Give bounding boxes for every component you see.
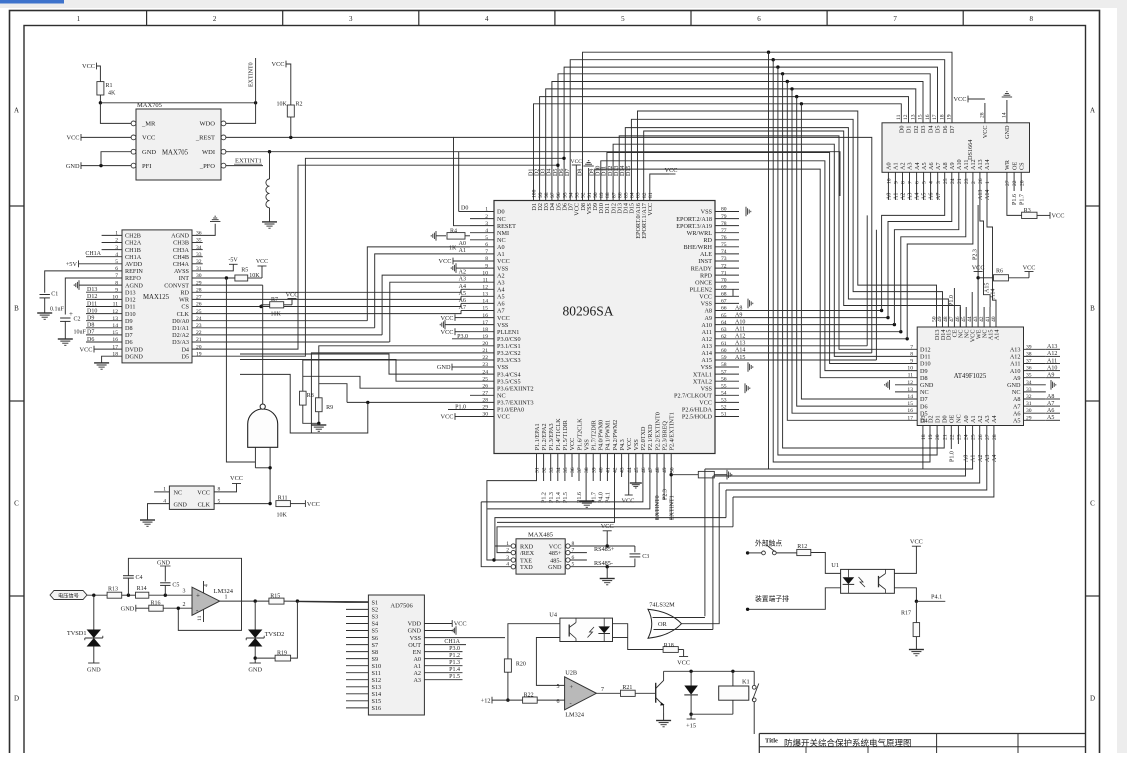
svg-text:VSS: VSS bbox=[583, 439, 590, 451]
svg-text:29: 29 bbox=[1026, 415, 1032, 421]
svg-text:VCC: VCC bbox=[954, 96, 967, 103]
svg-text:A6: A6 bbox=[928, 162, 935, 170]
svg-text:GND: GND bbox=[174, 502, 188, 509]
svg-text:53: 53 bbox=[721, 398, 727, 404]
svg-text:A2: A2 bbox=[978, 455, 984, 462]
svg-text:33: 33 bbox=[549, 467, 555, 473]
svg-text:P1.3: P1.3 bbox=[449, 660, 460, 666]
svg-text:14: 14 bbox=[907, 394, 913, 400]
svg-text:P1.2: P1.2 bbox=[542, 492, 548, 503]
svg-text:37: 37 bbox=[577, 467, 583, 473]
svg-text:60: 60 bbox=[721, 348, 727, 354]
svg-text:D9: D9 bbox=[125, 318, 133, 325]
svg-text:82: 82 bbox=[642, 192, 648, 198]
svg-text:VSS: VSS bbox=[701, 209, 713, 216]
svg-text:GND: GND bbox=[121, 605, 135, 612]
svg-text:17: 17 bbox=[482, 320, 488, 326]
svg-text:EXTINT0: EXTINT0 bbox=[249, 62, 255, 87]
svg-text:R8: R8 bbox=[307, 393, 314, 399]
svg-text:A12: A12 bbox=[970, 159, 977, 170]
svg-text:49: 49 bbox=[662, 467, 668, 473]
svg-text:S2: S2 bbox=[372, 607, 379, 614]
svg-text:88: 88 bbox=[605, 192, 611, 198]
svg-text:80: 80 bbox=[721, 207, 727, 213]
svg-text:VCC: VCC bbox=[441, 329, 454, 336]
svg-text:P2.0TXD: P2.0TXD bbox=[640, 426, 647, 450]
svg-text:58: 58 bbox=[721, 362, 727, 368]
svg-text:40: 40 bbox=[598, 467, 604, 473]
svg-text:36: 36 bbox=[570, 467, 576, 473]
svg-text:10K: 10K bbox=[277, 102, 288, 108]
svg-text:B: B bbox=[14, 305, 19, 313]
svg-text:XTAL1: XTAL1 bbox=[693, 371, 712, 378]
svg-text:VCC: VCC bbox=[601, 523, 614, 530]
svg-text:19: 19 bbox=[482, 334, 488, 340]
svg-text:D: D bbox=[14, 695, 19, 703]
svg-text:A4: A4 bbox=[915, 193, 921, 200]
svg-text:RS485-: RS485- bbox=[594, 560, 613, 567]
svg-text:GND: GND bbox=[87, 667, 101, 674]
svg-text:+: + bbox=[570, 684, 574, 691]
svg-text:27: 27 bbox=[985, 434, 991, 440]
svg-text:D8: D8 bbox=[920, 375, 928, 382]
svg-text:S6: S6 bbox=[372, 635, 379, 642]
svg-text:P2.1/RXD: P2.1/RXD bbox=[647, 424, 654, 450]
svg-text:10uF: 10uF bbox=[74, 330, 87, 336]
svg-text:7: 7 bbox=[910, 344, 913, 350]
svg-text:R16: R16 bbox=[151, 600, 161, 606]
svg-text:_REST: _REST bbox=[195, 135, 215, 142]
svg-text:20: 20 bbox=[1019, 180, 1025, 186]
svg-text:100: 100 bbox=[532, 189, 538, 198]
svg-text:C5: C5 bbox=[172, 583, 179, 589]
svg-text:42: 42 bbox=[613, 467, 619, 473]
svg-text:11: 11 bbox=[197, 615, 203, 621]
svg-text:A1: A1 bbox=[894, 193, 900, 200]
svg-text:C3: C3 bbox=[642, 554, 649, 560]
svg-text:D3/A3: D3/A3 bbox=[172, 339, 189, 346]
svg-text:D4: D4 bbox=[547, 169, 553, 176]
svg-text:+5V: +5V bbox=[66, 261, 78, 268]
svg-text:16: 16 bbox=[482, 313, 488, 319]
svg-text:6: 6 bbox=[557, 699, 560, 705]
svg-text:P1.7: P1.7 bbox=[1019, 194, 1025, 205]
svg-text:OE: OE bbox=[949, 415, 956, 423]
svg-text:P2.3: P2.3 bbox=[973, 249, 979, 260]
svg-text:74: 74 bbox=[721, 249, 727, 255]
svg-text:55: 55 bbox=[721, 383, 727, 389]
svg-text:VCC: VCC bbox=[307, 501, 320, 508]
svg-text:21: 21 bbox=[942, 434, 948, 440]
svg-text:7: 7 bbox=[908, 181, 914, 184]
svg-text:26: 26 bbox=[196, 302, 202, 308]
svg-text:5: 5 bbox=[621, 15, 625, 23]
svg-text:P1.1/EPA1: P1.1/EPA1 bbox=[534, 423, 541, 450]
svg-text:VSS: VSS bbox=[701, 385, 713, 392]
svg-text:D: D bbox=[1090, 695, 1095, 703]
svg-text:27: 27 bbox=[1005, 180, 1011, 186]
svg-text:A7: A7 bbox=[935, 162, 942, 170]
svg-text:25: 25 bbox=[482, 376, 488, 382]
svg-text:VCC: VCC bbox=[982, 126, 989, 139]
svg-text:REFO: REFO bbox=[125, 275, 141, 282]
svg-text:40: 40 bbox=[991, 316, 997, 322]
svg-text:D8: D8 bbox=[577, 169, 583, 176]
svg-text:VCC: VCC bbox=[1052, 213, 1065, 220]
svg-text:D6: D6 bbox=[942, 126, 949, 134]
svg-text:A9: A9 bbox=[949, 162, 956, 170]
svg-text:S3: S3 bbox=[372, 614, 379, 621]
svg-text:VCC: VCC bbox=[82, 63, 95, 70]
svg-text:VCC: VCC bbox=[1023, 264, 1036, 271]
svg-text:VSS: VSS bbox=[701, 364, 713, 371]
svg-text:A13: A13 bbox=[978, 190, 984, 200]
svg-text:CH2A: CH2A bbox=[125, 240, 142, 247]
svg-text:K1: K1 bbox=[742, 679, 750, 686]
svg-text:D0: D0 bbox=[497, 209, 505, 216]
svg-text:S14: S14 bbox=[372, 691, 382, 698]
svg-text:/REX: /REX bbox=[520, 550, 535, 557]
svg-text:30: 30 bbox=[482, 412, 488, 418]
svg-text:-5V: -5V bbox=[228, 258, 238, 264]
svg-text:A11: A11 bbox=[1010, 361, 1020, 368]
svg-text:21: 21 bbox=[482, 348, 488, 354]
svg-text:16: 16 bbox=[925, 114, 931, 120]
svg-text:5: 5 bbox=[557, 684, 560, 690]
svg-text:A6: A6 bbox=[497, 301, 505, 308]
svg-text:P1.0: P1.0 bbox=[949, 451, 955, 462]
svg-text:TVSD2: TVSD2 bbox=[265, 631, 285, 638]
svg-text:96: 96 bbox=[556, 192, 562, 198]
svg-text:71: 71 bbox=[721, 270, 727, 276]
svg-text:39: 39 bbox=[1026, 344, 1032, 350]
svg-text:S1: S1 bbox=[372, 600, 379, 607]
svg-text:EPORT.2/A18: EPORT.2/A18 bbox=[676, 216, 712, 223]
svg-text:NC: NC bbox=[1012, 389, 1021, 396]
svg-text:D3: D3 bbox=[920, 415, 927, 423]
svg-text:D5: D5 bbox=[935, 126, 942, 134]
svg-text:P4.0/PWM0: P4.0/PWM0 bbox=[598, 420, 605, 451]
svg-text:21: 21 bbox=[957, 178, 963, 184]
svg-text:A14: A14 bbox=[993, 330, 1000, 341]
svg-text:35: 35 bbox=[563, 467, 569, 473]
svg-text:15: 15 bbox=[918, 114, 924, 120]
svg-text:+15: +15 bbox=[686, 723, 696, 730]
svg-text:P3.1/CS1: P3.1/CS1 bbox=[497, 343, 521, 350]
svg-text:3: 3 bbox=[485, 221, 488, 227]
svg-text:24: 24 bbox=[482, 369, 488, 375]
svg-text:CH3B: CH3B bbox=[173, 240, 189, 247]
svg-text:61: 61 bbox=[721, 341, 727, 347]
svg-text:8: 8 bbox=[485, 256, 488, 262]
svg-text:VDD: VDD bbox=[408, 621, 422, 628]
svg-text:A9: A9 bbox=[1013, 375, 1021, 382]
svg-text:C1: C1 bbox=[51, 292, 58, 298]
svg-text:50: 50 bbox=[669, 467, 675, 473]
svg-text:78: 78 bbox=[721, 221, 727, 227]
svg-text:A0: A0 bbox=[887, 193, 893, 200]
svg-text:P2.7/CLKOUT: P2.7/CLKOUT bbox=[674, 393, 712, 400]
svg-text:S10: S10 bbox=[372, 663, 382, 670]
svg-text:18: 18 bbox=[482, 327, 488, 333]
svg-text:13: 13 bbox=[911, 114, 917, 120]
svg-text:A13: A13 bbox=[1010, 347, 1021, 354]
svg-text:装置端子排: 装置端子排 bbox=[755, 594, 789, 603]
svg-text:INST: INST bbox=[698, 258, 712, 265]
svg-text:98: 98 bbox=[544, 192, 550, 198]
svg-text:VCC: VCC bbox=[622, 498, 635, 505]
svg-text:11: 11 bbox=[908, 373, 914, 379]
svg-text:A2: A2 bbox=[977, 415, 984, 423]
svg-text:D4: D4 bbox=[928, 126, 935, 134]
svg-text:A11: A11 bbox=[702, 329, 712, 336]
svg-text:RPD: RPD bbox=[700, 272, 713, 279]
svg-text:73: 73 bbox=[721, 256, 727, 262]
svg-text:P3.6/EXIINT2: P3.6/EXIINT2 bbox=[497, 385, 534, 392]
svg-text:A0: A0 bbox=[886, 162, 893, 170]
svg-text:AGND: AGND bbox=[125, 282, 143, 289]
svg-text:VSS: VSS bbox=[701, 301, 713, 308]
svg-text:14: 14 bbox=[482, 299, 488, 305]
svg-text:34: 34 bbox=[556, 467, 562, 473]
svg-text:13: 13 bbox=[482, 292, 488, 298]
svg-text:86: 86 bbox=[617, 192, 623, 198]
svg-text:64: 64 bbox=[721, 320, 727, 326]
svg-text:47: 47 bbox=[648, 467, 654, 473]
svg-text:28: 28 bbox=[482, 398, 488, 404]
svg-text:A7: A7 bbox=[497, 308, 505, 315]
svg-text:CLK: CLK bbox=[177, 311, 190, 318]
svg-text:A: A bbox=[14, 107, 19, 115]
svg-text:14: 14 bbox=[1002, 112, 1008, 118]
svg-text:46: 46 bbox=[641, 467, 647, 473]
svg-text:63: 63 bbox=[721, 327, 727, 333]
svg-text:31: 31 bbox=[535, 467, 541, 473]
svg-text:A2: A2 bbox=[900, 162, 907, 170]
svg-text:R2: R2 bbox=[296, 102, 303, 108]
svg-text:U4: U4 bbox=[549, 612, 558, 619]
svg-text:P1.6/T2CLK: P1.6/T2CLK bbox=[576, 418, 583, 451]
svg-text:P1.5: P1.5 bbox=[563, 492, 569, 503]
svg-text:95: 95 bbox=[562, 192, 568, 198]
svg-text:GND: GND bbox=[1007, 382, 1021, 389]
svg-text:P1.5: P1.5 bbox=[449, 674, 460, 680]
svg-text:A14: A14 bbox=[984, 159, 991, 170]
svg-text:D7: D7 bbox=[920, 396, 928, 403]
svg-text:A4: A4 bbox=[992, 455, 998, 462]
svg-text:R21: R21 bbox=[622, 685, 632, 691]
svg-text:10K: 10K bbox=[277, 513, 288, 519]
svg-text:9: 9 bbox=[910, 359, 913, 365]
svg-text:P1.6: P1.6 bbox=[1012, 194, 1018, 205]
svg-text:8: 8 bbox=[901, 181, 907, 184]
svg-text:4: 4 bbox=[929, 181, 935, 184]
svg-text:A0: A0 bbox=[963, 415, 970, 423]
svg-text:P1.0/EPA0: P1.0/EPA0 bbox=[497, 407, 524, 414]
svg-text:2: 2 bbox=[485, 214, 488, 220]
svg-text:A1: A1 bbox=[497, 251, 505, 258]
svg-text:DS1664: DS1664 bbox=[967, 140, 974, 160]
svg-text:28: 28 bbox=[980, 112, 986, 118]
svg-text:D2: D2 bbox=[534, 169, 540, 176]
svg-text:D12: D12 bbox=[125, 297, 136, 304]
svg-text:CH1B: CH1B bbox=[125, 247, 141, 254]
svg-text:A3: A3 bbox=[413, 677, 421, 684]
svg-text:6: 6 bbox=[757, 15, 761, 23]
svg-text:D0/A0: D0/A0 bbox=[172, 318, 189, 325]
svg-text:BHE/WRH: BHE/WRH bbox=[683, 244, 712, 251]
svg-text:RD: RD bbox=[180, 289, 189, 296]
svg-text:0.1uF: 0.1uF bbox=[50, 307, 65, 313]
svg-text:防爆开关综合保护系统电气原理图: 防爆开关综合保护系统电气原理图 bbox=[784, 738, 912, 748]
svg-text:99: 99 bbox=[538, 192, 544, 198]
svg-text:P1.0: P1.0 bbox=[949, 295, 955, 306]
svg-text:PLLEN1: PLLEN1 bbox=[497, 329, 519, 336]
svg-text:P4.0: P4.0 bbox=[598, 492, 604, 503]
svg-text:+: + bbox=[196, 592, 200, 600]
svg-text:CH4B: CH4B bbox=[173, 254, 189, 261]
svg-text:48: 48 bbox=[655, 467, 661, 473]
svg-text:VCC: VCC bbox=[972, 264, 985, 271]
svg-text:CH1A: CH1A bbox=[125, 254, 142, 261]
svg-text:NC: NC bbox=[497, 216, 506, 223]
svg-text:D1/A1: D1/A1 bbox=[172, 325, 189, 332]
svg-text:WR/WRL: WR/WRL bbox=[687, 230, 713, 237]
svg-text:A3: A3 bbox=[985, 455, 991, 462]
svg-text:TVSD1: TVSD1 bbox=[67, 630, 87, 637]
svg-text:90: 90 bbox=[593, 192, 599, 198]
svg-text:A10: A10 bbox=[701, 322, 712, 329]
svg-text:D5: D5 bbox=[181, 353, 189, 360]
svg-text:16: 16 bbox=[907, 408, 913, 414]
svg-text:91: 91 bbox=[587, 192, 593, 198]
svg-text:D7: D7 bbox=[125, 332, 133, 339]
svg-text:GND: GND bbox=[248, 667, 262, 674]
svg-text:R5: R5 bbox=[241, 268, 248, 274]
svg-text:A9: A9 bbox=[704, 315, 712, 322]
svg-text:R7: R7 bbox=[271, 297, 278, 303]
svg-text:17: 17 bbox=[907, 415, 913, 421]
svg-text:1K: 1K bbox=[449, 246, 457, 252]
svg-text:3: 3 bbox=[936, 181, 942, 184]
svg-text:4: 4 bbox=[485, 15, 489, 23]
svg-text:R22: R22 bbox=[524, 692, 534, 698]
svg-text:INT: INT bbox=[179, 275, 190, 282]
svg-text:AVDD: AVDD bbox=[125, 261, 143, 268]
svg-text:85: 85 bbox=[624, 192, 630, 198]
svg-text:18: 18 bbox=[939, 114, 945, 120]
svg-text:S9: S9 bbox=[372, 656, 379, 663]
svg-text:VCC: VCC bbox=[571, 159, 583, 165]
svg-text:79: 79 bbox=[721, 214, 727, 220]
svg-text:P3.2/CS2: P3.2/CS2 bbox=[497, 350, 521, 357]
svg-text:ALE: ALE bbox=[700, 251, 712, 258]
svg-text:A12: A12 bbox=[1010, 354, 1021, 361]
svg-text:CLK: CLK bbox=[198, 502, 211, 509]
svg-text:GND: GND bbox=[548, 564, 562, 571]
svg-text:P3.3/CS3: P3.3/CS3 bbox=[497, 357, 521, 364]
svg-text:2: 2 bbox=[971, 181, 977, 184]
svg-text:_MR: _MR bbox=[141, 121, 156, 128]
svg-text:D1: D1 bbox=[906, 126, 913, 134]
svg-text:D11: D11 bbox=[125, 304, 135, 311]
svg-text:A6: A6 bbox=[929, 193, 935, 200]
svg-text:D6: D6 bbox=[559, 169, 565, 176]
svg-text:P2.4/EXTINT1: P2.4/EXTINT1 bbox=[669, 412, 676, 450]
svg-text:VCC: VCC bbox=[230, 475, 243, 482]
svg-text:52: 52 bbox=[721, 405, 727, 411]
svg-text:D1: D1 bbox=[528, 169, 534, 176]
svg-text:18: 18 bbox=[921, 434, 927, 440]
svg-text:WR: WR bbox=[1004, 159, 1011, 170]
svg-text:A3: A3 bbox=[907, 162, 914, 170]
svg-text:25: 25 bbox=[943, 178, 949, 184]
svg-text:10: 10 bbox=[887, 178, 893, 184]
svg-text:A6: A6 bbox=[1013, 410, 1021, 417]
svg-text:P2.3/BREQ: P2.3/BREQ bbox=[661, 421, 668, 451]
svg-text:NMI: NMI bbox=[497, 230, 509, 237]
svg-text:_PFO: _PFO bbox=[199, 163, 215, 170]
svg-text:DVDD: DVDD bbox=[125, 346, 143, 353]
svg-text:R14: R14 bbox=[137, 586, 147, 592]
svg-text:GND: GND bbox=[408, 628, 422, 635]
svg-text:VCC: VCC bbox=[272, 61, 285, 68]
svg-text:20: 20 bbox=[935, 434, 941, 440]
svg-text:OE: OE bbox=[1011, 162, 1018, 170]
svg-text:A11: A11 bbox=[963, 160, 970, 170]
svg-text:S11: S11 bbox=[372, 670, 381, 677]
svg-text:41: 41 bbox=[606, 467, 612, 473]
svg-text:D3: D3 bbox=[920, 126, 927, 134]
svg-text:D7: D7 bbox=[949, 126, 956, 134]
svg-text:32: 32 bbox=[542, 467, 548, 473]
svg-text:28: 28 bbox=[992, 434, 998, 440]
svg-text:VCC: VCC bbox=[441, 315, 454, 322]
svg-text:10K: 10K bbox=[271, 312, 282, 318]
svg-text:A2: A2 bbox=[901, 193, 907, 200]
svg-text:23: 23 bbox=[964, 178, 970, 184]
svg-text:39: 39 bbox=[591, 467, 597, 473]
svg-text:R15: R15 bbox=[270, 594, 280, 600]
svg-text:54: 54 bbox=[721, 391, 727, 397]
svg-text:27: 27 bbox=[196, 295, 202, 301]
svg-text:GND: GND bbox=[920, 382, 934, 389]
svg-text:VCC: VCC bbox=[197, 490, 210, 497]
svg-text:75: 75 bbox=[721, 242, 727, 248]
svg-text:A14: A14 bbox=[991, 289, 997, 299]
svg-text:WR: WR bbox=[179, 297, 190, 304]
svg-text:P4.2/PWM2: P4.2/PWM2 bbox=[612, 420, 619, 451]
svg-text:A4: A4 bbox=[991, 415, 998, 423]
svg-text:10: 10 bbox=[907, 366, 913, 372]
svg-text:9: 9 bbox=[485, 263, 488, 269]
svg-text:7: 7 bbox=[601, 687, 604, 693]
svg-text:VCC: VCC bbox=[699, 294, 712, 301]
svg-text:19: 19 bbox=[928, 434, 934, 440]
svg-text:D9: D9 bbox=[920, 368, 928, 375]
svg-text:A0: A0 bbox=[413, 656, 421, 663]
svg-text:VSS: VSS bbox=[410, 635, 422, 642]
svg-text:VCC: VCC bbox=[665, 167, 678, 174]
svg-text:RESET: RESET bbox=[497, 223, 516, 230]
svg-text:15: 15 bbox=[482, 306, 488, 312]
svg-text:C: C bbox=[1090, 500, 1095, 508]
svg-text:3: 3 bbox=[349, 15, 353, 23]
svg-text:D10: D10 bbox=[125, 311, 136, 318]
svg-text:26: 26 bbox=[482, 383, 488, 389]
svg-text:D10: D10 bbox=[920, 361, 931, 368]
svg-text:24: 24 bbox=[950, 178, 956, 184]
